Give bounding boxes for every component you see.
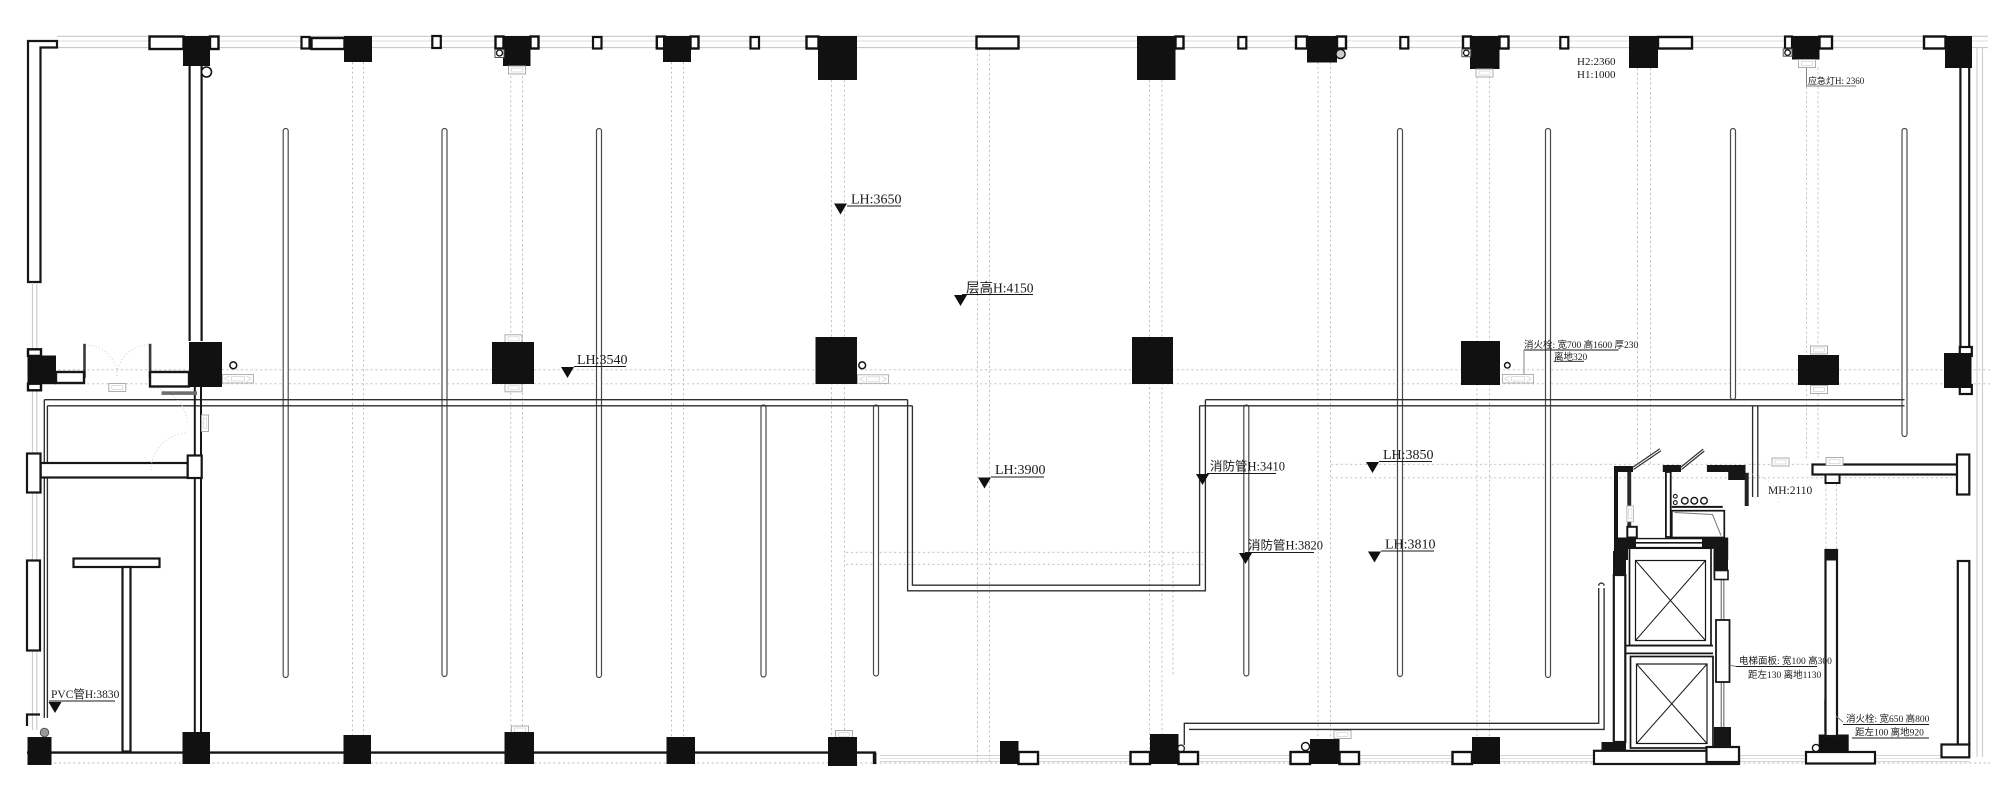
beam 5 — [874, 405, 879, 676]
PVC管H:3830 — [49, 687, 120, 713]
svg-text:H2:2360: H2:2360 — [1577, 56, 1616, 68]
door leaf 2 (double line) — [1680, 449, 1704, 469]
partition stem — [1666, 472, 1671, 537]
duct left segment top line — [44, 399, 907, 401]
svg-text:消防管H:3410: 消防管H:3410 — [1210, 459, 1285, 474]
car 2 — [1631, 657, 1714, 749]
exterior gray band top — [44, 36, 1988, 47]
bottom-right tall wall — [1958, 561, 1970, 745]
duct left segment bottom line — [47, 405, 912, 407]
right wall black base — [1714, 727, 1731, 749]
right upper wall double line — [1960, 68, 1969, 347]
circle at T1 — [202, 67, 212, 77]
bottom-right L wall — [1942, 745, 1970, 758]
svg-text:应急灯H: 2360: 应急灯H: 2360 — [1808, 75, 1865, 86]
door swing arc lobby — [1749, 474, 1779, 504]
bottom skirts — [1594, 751, 1739, 764]
left wall black top — [1613, 551, 1626, 575]
svg-text:H1:1000: H1:1000 — [1577, 69, 1616, 81]
counter shelf line — [1672, 506, 1723, 508]
LH:3540 — [561, 353, 628, 378]
bottom-right duct run — [1184, 583, 1604, 745]
column M7 — [1132, 337, 1173, 384]
column T4 + stubs — [657, 37, 665, 49]
duct detour outer — [908, 400, 1206, 591]
car 1 — [1630, 548, 1712, 645]
PVC drop at left — [43, 400, 45, 718]
lobby wall row2 blocks — [1614, 549, 1628, 561]
door leaf 1 (double line) — [1632, 449, 1661, 470]
消防管H:3820 — [1239, 538, 1323, 565]
column B14 + wall — [1806, 752, 1875, 764]
label box above column B3 — [512, 726, 529, 734]
column T14 + label below — [1785, 37, 1792, 49]
T wall: stem — [123, 567, 131, 752]
column B8 + stubs + circle — [1291, 752, 1311, 764]
door leaf bar right — [150, 372, 189, 387]
column M15 + stubs — [1960, 347, 1972, 356]
mid band — [1626, 645, 1713, 647]
LH:3810 — [1368, 538, 1436, 563]
label box above column M3 — [505, 335, 522, 343]
main ceiling duct run (double line) — [44, 400, 1904, 718]
hollow wall square — [1238, 37, 1246, 49]
label box above column B5 — [836, 731, 853, 739]
toilet inner return wall — [1627, 472, 1631, 527]
duct right segment bottom line — [1200, 405, 1905, 407]
exterior gray band right — [1977, 48, 1983, 757]
small white box — [1715, 571, 1729, 580]
LH:3650 — [834, 193, 902, 215]
beam 8 — [1731, 129, 1736, 400]
fire hydrant circle + label — [1505, 363, 1511, 369]
small box at wall base — [1627, 527, 1637, 538]
door swing arcs — [86, 345, 188, 470]
door leaf bar left — [56, 372, 84, 383]
column T11 + stubs — [1463, 37, 1471, 49]
column B9 + stub — [1453, 752, 1473, 764]
left wall rect lower (x26-40,y560-651) — [27, 561, 40, 651]
door jamb 2 — [149, 344, 152, 378]
column M0 + stubs — [28, 349, 41, 356]
door panel — [1716, 620, 1730, 682]
emergency light leader + text — [1807, 68, 1857, 86]
LH:3850 — [1366, 448, 1434, 473]
svg-text:消防管H:3820: 消防管H:3820 — [1248, 538, 1323, 553]
ceiling beam lines (thin double lines with round caps) — [283, 129, 1907, 678]
label box fire hydrant M9 — [1503, 375, 1534, 384]
svg-text:消火栓: 宽650 高800: 消火栓: 宽650 高800 — [1846, 713, 1930, 725]
column M5 — [816, 337, 858, 384]
beam 3 — [597, 129, 602, 678]
gray threshold bar — [162, 391, 198, 395]
toilet left wall — [1614, 466, 1633, 539]
duct detour inner — [912, 406, 1199, 585]
junction circle bottom duct — [1178, 745, 1185, 752]
partition end cap — [188, 456, 202, 479]
svg-text:LH:3540: LH:3540 — [577, 353, 628, 368]
svg-text:LH:3810: LH:3810 — [1385, 538, 1436, 553]
top-left L wall — [28, 41, 57, 282]
top window rect — [977, 37, 1019, 49]
column T3 + stubs — [496, 37, 504, 49]
hollow wall square — [751, 37, 760, 49]
column B6 + stub — [1019, 752, 1039, 764]
column B4 — [667, 737, 696, 764]
dashed grid vertical pairs — [353, 49, 1819, 763]
层高H:4150 — [954, 280, 1034, 307]
label box right of column M5 — [858, 375, 889, 384]
label box below column T3 — [509, 66, 526, 74]
column T1 + stubs — [150, 37, 184, 50]
room partition wall band (y462-478) — [41, 463, 188, 478]
hollow wall square — [432, 36, 441, 48]
door assembly middle-left: jamb 1 — [83, 344, 86, 378]
label box below column M14 — [1811, 386, 1828, 394]
LH:3900 — [978, 463, 1046, 489]
svg-text:距左100 离地920: 距左100 离地920 — [1855, 727, 1924, 739]
partition top bar — [1663, 465, 1677, 472]
beam 2 — [442, 129, 447, 677]
duct right segment top line — [1205, 399, 1904, 401]
column T13 + window stub — [1658, 37, 1692, 49]
fire pipe line — [1244, 405, 1249, 676]
column T9 + stubs + circle — [1296, 37, 1307, 49]
interior wall below middle column to bottom — [195, 387, 201, 752]
column M9 — [1461, 341, 1500, 385]
column M1 — [189, 342, 222, 387]
beam 4 — [761, 405, 766, 677]
toilet top right wall — [1707, 465, 1746, 472]
right wall black top — [1714, 538, 1729, 578]
lobby wall right of elevator — [1826, 550, 1838, 736]
column T7 (large) + stub — [1176, 37, 1184, 49]
right T wall — [1813, 465, 1958, 475]
svg-text:层高H:4150: 层高H:4150 — [966, 280, 1034, 296]
hollow wall square — [593, 37, 602, 49]
svg-text:LH:3650: LH:3650 — [851, 193, 902, 208]
wall strip down — [1745, 473, 1749, 506]
small label box near door — [109, 384, 126, 392]
left wall black base — [1602, 742, 1627, 755]
beam 7 — [1546, 129, 1551, 678]
exterior gray band bottom (window strips) — [880, 756, 1970, 762]
bottom wall dark line (left half) — [27, 751, 876, 753]
label box below column T11 — [1476, 69, 1493, 77]
interior wall below top column C1 — [190, 66, 202, 341]
T wall: top bar — [74, 559, 160, 568]
svg-text:电梯面板: 宽100 高300: 电梯面板: 宽100 高300 — [1739, 655, 1832, 667]
label box below column M3 — [505, 384, 522, 392]
svg-text:LH:3900: LH:3900 — [995, 463, 1046, 478]
column B7 + stubs — [1131, 752, 1151, 764]
label box on right T wall — [1826, 458, 1843, 466]
label box below column T14 — [1798, 60, 1815, 68]
shaft top double line — [1626, 542, 1713, 544]
label box above column B8 — [1334, 731, 1351, 739]
label box right of column M1 — [223, 375, 254, 384]
left wall white — [1614, 575, 1626, 742]
beam 6 — [1398, 129, 1403, 677]
消防管H:3410 — [1196, 459, 1285, 486]
bottom wall end cap — [873, 753, 877, 765]
toilet small label — [1772, 458, 1789, 466]
svg-text:MH:2110: MH:2110 — [1768, 485, 1813, 497]
svg-text:消火栓: 宽700 高1600 厚230: 消火栓: 宽700 高1600 厚230 — [1524, 339, 1639, 351]
small left wall stub above bottom column — [27, 715, 40, 727]
svg-text:PVC管H:3830: PVC管H:3830 — [51, 687, 120, 701]
corner column T15 + stub — [1924, 37, 1946, 49]
faucet circles — [1673, 494, 1677, 498]
exterior gray band left — [33, 284, 37, 730]
column T5 (large) — [807, 37, 819, 49]
svg-text:LH:3850: LH:3850 — [1383, 448, 1434, 463]
column B2 — [344, 735, 372, 764]
wall step below — [1728, 472, 1745, 480]
vertical label box on wall — [1627, 506, 1634, 522]
column B1 — [183, 732, 211, 764]
wash counter — [1672, 511, 1725, 538]
svg-text:距左130 离地1130: 距左130 离地1130 — [1748, 669, 1822, 681]
beam 9 — [1902, 129, 1907, 437]
right rail line — [1720, 578, 1722, 745]
duct branch down to toilet — [1752, 406, 1754, 497]
hollow wall square — [302, 37, 310, 49]
column B0 + circle — [28, 737, 52, 765]
hollow wall square — [1560, 37, 1568, 49]
dashed grid horizontals — [30, 370, 1990, 763]
left wall rect mid (x26-41,y453-493) — [27, 454, 41, 493]
label box above column M14 — [1811, 346, 1828, 354]
hollow wall square — [1400, 37, 1408, 49]
door jamb 2 — [1675, 465, 1681, 472]
beam 1 — [283, 129, 288, 678]
lobby wall row1 blocks — [1614, 538, 1636, 549]
column T2 + stubs — [312, 38, 345, 49]
